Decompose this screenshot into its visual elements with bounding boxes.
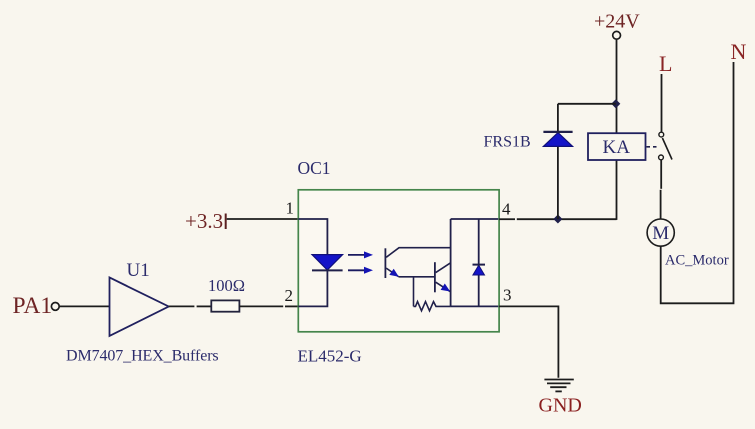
diode FRS1B [543, 133, 572, 147]
relay coil KA [588, 133, 646, 160]
wire [660, 190, 662, 219]
wire PA1 to buffer [60, 305, 110, 307]
buffer U1 [110, 278, 169, 336]
LED anode triangle [312, 255, 343, 270]
wire pin4 inside [451, 218, 499, 220]
svg-text:PA1: PA1 [13, 293, 53, 319]
svg-text:L: L [659, 51, 672, 76]
relay contact upper pin [659, 132, 664, 137]
svg-text:FRS1B: FRS1B [484, 134, 531, 151]
terminal PA1 [51, 303, 59, 311]
relay contact lower pin [659, 155, 664, 160]
svg-text:EL452-G: EL452-G [298, 347, 362, 366]
ground GND symbol [544, 379, 573, 381]
wire pin4 external [499, 218, 515, 220]
svg-text:3: 3 [503, 286, 512, 305]
svg-text:OC1: OC1 [298, 158, 331, 178]
wire motor to N [661, 62, 734, 303]
svg-text:4: 4 [502, 200, 511, 219]
Q2 emitter [436, 282, 451, 292]
transistor Q2 base [434, 262, 436, 292]
wire diode branch vertical [557, 104, 559, 219]
wire resistor to pin2 [239, 305, 283, 307]
terminal bar +3.3 [225, 214, 227, 230]
diode D1 (inside opto) [478, 219, 480, 306]
Q1 emitter arrowhead [389, 269, 399, 277]
svg-text:GND: GND [539, 395, 582, 417]
svg-text:M: M [652, 223, 669, 244]
wire [197, 305, 212, 307]
wire diode branch top [558, 103, 616, 105]
svg-text:DM7407_HEX_Buffers: DM7407_HEX_Buffers [66, 348, 219, 365]
optocoupler OC1 body [298, 190, 499, 332]
wire pin3 external [499, 306, 558, 377]
light arrow upper [348, 254, 365, 256]
svg-text:1: 1 [286, 199, 295, 218]
wire Q1 emitter to Q2 base [399, 276, 435, 278]
phototransistor Q1 base [384, 248, 386, 278]
wire +3.3 to pin1 [227, 218, 299, 220]
wire L down [661, 74, 663, 132]
wire buffer to resistor [169, 305, 195, 307]
wire +24V down [616, 39, 618, 133]
terminal +24V [613, 31, 621, 39]
svg-text:KA: KA [603, 137, 631, 158]
svg-text:2: 2 [285, 286, 294, 305]
wire bottom to pin3 [451, 305, 499, 307]
wire [517, 218, 617, 220]
wire KA branch vertical lower [616, 160, 618, 220]
relay contact blade [662, 138, 672, 160]
junction dot pin4/diode branch [553, 214, 562, 223]
svg-text:+24V: +24V [594, 11, 640, 33]
light arrow lower [348, 269, 365, 271]
wire LED to pin2 [298, 270, 327, 306]
wire pin1 inside [298, 219, 327, 255]
pin 2 stub [285, 305, 298, 307]
motor M body [647, 219, 674, 246]
svg-text:AC_Motor: AC_Motor [665, 253, 729, 269]
svg-text:100Ω: 100Ω [208, 276, 245, 295]
dashed linkage [647, 146, 660, 148]
Q2 emitter arrowhead [441, 284, 451, 292]
svg-text:N: N [731, 39, 747, 64]
junction dot +24V/diode branch [611, 99, 620, 108]
svg-text:U1: U1 [127, 260, 150, 281]
resistor R 100ohm body [211, 300, 239, 311]
Q1 collector [386, 248, 450, 258]
svg-text:+3.3: +3.3 [185, 209, 223, 233]
wire contact to motor [660, 160, 662, 189]
resistor RB zigzag [414, 302, 451, 311]
Q2 collector [436, 263, 451, 273]
Q1 emitter [386, 268, 398, 277]
wire drop to resistor [413, 277, 415, 307]
LED cathode bar [312, 269, 343, 271]
wire collector-emitter vertical [450, 219, 452, 306]
